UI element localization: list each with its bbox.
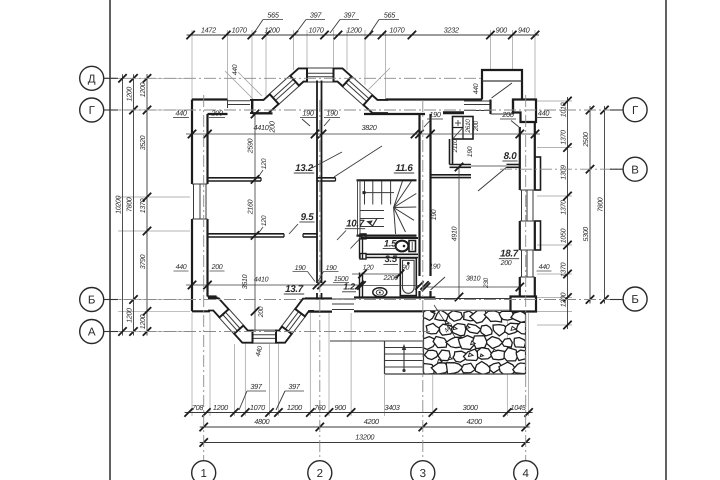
svg-text:120: 120 [363,265,374,272]
svg-text:4910: 4910 [452,226,459,241]
svg-text:А: А [88,327,96,339]
svg-text:10.7: 10.7 [346,219,365,230]
partition P6 stub right of stairs [431,174,472,176]
stair lower flight treads [360,210,384,212]
svg-text:1370: 1370 [560,200,567,215]
svg-text:440: 440 [473,83,480,94]
svg-text:440: 440 [232,64,239,75]
svg-text:397: 397 [288,382,301,391]
svg-text:1472: 1472 [201,26,216,35]
partition P1 between rooms 13.2 and 9.5 [208,177,262,179]
svg-text:230: 230 [483,277,490,289]
svg-text:3403: 3403 [384,403,399,412]
exterior top wall outer face left segment [192,98,228,100]
exterior bottom wall left corner outer [192,310,210,312]
partition P2 between rooms 9.5 and 13.7 [208,233,285,235]
interior vertical dimension line x=255 [254,114,256,330]
right dimension column outer 7800 [604,106,606,304]
svg-text:3232: 3232 [444,26,459,35]
left dimension column inner [146,74,148,336]
svg-text:4800: 4800 [254,417,269,426]
window W4 in right wall [521,190,523,221]
svg-text:3790: 3790 [140,254,147,269]
sheet frame left border [109,0,111,480]
partition V4 of room 8.0 [449,139,451,165]
svg-text:2500: 2500 [583,132,590,148]
axis circle A left [104,331,118,333]
svg-text:1200: 1200 [213,403,228,412]
duct shaft cross mark [455,122,461,124]
bearing wall V2 on axis 3 lower part [418,291,420,298]
svg-text:4410: 4410 [254,277,269,284]
svg-text:190: 190 [431,209,438,220]
axis circle G left [104,109,118,111]
svg-text:1200: 1200 [264,26,279,35]
exterior right wall inner face [519,127,521,190]
svg-text:1: 1 [200,468,206,480]
svg-text:200: 200 [258,306,265,318]
svg-text:200: 200 [501,110,514,119]
diagonal leader into stones [434,305,455,337]
interior vertical dim 4910 in room 18.7 [458,167,460,297]
interior dimension line 120 90 in bathroom [352,273,400,275]
partition P3 between WC and bathroom [366,253,418,255]
svg-text:В: В [631,164,639,176]
door post square at P3 junction [360,254,366,260]
svg-text:13.7: 13.7 [285,284,304,295]
svg-text:565: 565 [384,11,397,20]
svg-text:190: 190 [429,110,441,119]
svg-text:1200: 1200 [126,87,133,102]
svg-text:3610: 3610 [242,274,249,289]
partition P4 top wall of WC room [361,237,418,239]
interior dimension row A y=134 [186,133,540,135]
axis circle 3 bottom [411,461,435,480]
svg-text:120: 120 [261,158,268,169]
right dimension column middle 2500 5300 [589,106,591,304]
svg-text:5300: 5300 [583,227,590,242]
svg-text:4200: 4200 [467,417,482,426]
right dimension column inner [567,97,569,329]
partition V3 left of WC and bathroom upper [359,238,361,259]
svg-text:Г: Г [632,105,639,117]
bottom extension lines [191,313,193,416]
svg-text:4200: 4200 [364,417,379,426]
partition V3 lower [359,273,361,298]
partition P1 stub right of axis 2 [317,177,336,179]
svg-text:2590: 2590 [248,138,255,154]
top bay diagonal extension lines [225,71,253,99]
svg-text:1370: 1370 [560,262,567,277]
svg-text:1200: 1200 [126,308,133,323]
svg-text:Г: Г [89,105,96,117]
svg-text:2610: 2610 [465,119,472,134]
exterior top wall inner face left segment [208,113,228,115]
svg-text:3520: 3520 [140,135,147,150]
svg-text:2: 2 [317,468,323,480]
window W2 in top wall [228,100,253,102]
axis line 1 (vertical x=203) [203,95,205,460]
stair left boundary double line [357,180,359,235]
svg-text:10200: 10200 [115,196,122,214]
svg-text:4: 4 [522,468,529,480]
axis circle V right [610,168,623,170]
bottom bay window band with elbows [208,304,314,336]
axis line B (horizontal y=299) [104,299,622,301]
stair upper flight treads [364,181,366,205]
svg-text:200: 200 [473,120,480,132]
stair flight middle line [365,192,395,194]
svg-text:190: 190 [326,265,337,272]
axis circle G right [610,109,623,111]
svg-text:Б: Б [88,295,96,307]
top extension lines [191,30,193,99]
svg-text:1050: 1050 [560,228,567,243]
exterior right wall outer face [534,122,536,190]
door leaf of room 8.0 [478,167,507,191]
svg-text:1200: 1200 [140,82,147,97]
svg-text:9.5: 9.5 [301,212,315,223]
bottom-right corner block [511,297,537,312]
porch doorway thin lines [435,298,510,300]
duct shaft block near axis 3 [453,117,474,140]
svg-text:3820: 3820 [361,123,376,132]
svg-text:900: 900 [496,26,508,35]
exterior top wall inner face right of bay [364,113,425,115]
svg-text:2110: 2110 [452,139,459,153]
svg-text:200: 200 [268,121,277,134]
svg-text:3.5: 3.5 [385,253,398,264]
left extension lines [118,77,190,79]
stair direction arrow [369,218,378,226]
svg-text:1070: 1070 [389,26,404,35]
stair top edge beam [357,179,417,181]
door post square at P4 junction [360,234,366,239]
top-right corner block [513,100,536,123]
porch platform edge line [330,340,385,342]
svg-text:1200: 1200 [140,314,147,329]
wash basin in room 1.2 [373,288,387,297]
left dimension column outer 10200 [122,74,124,335]
right wall pilaster upper [535,157,541,190]
svg-text:1070: 1070 [308,26,323,35]
svg-text:120: 120 [261,215,268,226]
axis line A (horizontal y=331) [104,331,430,333]
door leaf from stairs to room 18.7 [431,277,446,290]
svg-text:3: 3 [420,468,426,480]
exterior top wall outer face right of bay [386,98,482,100]
bearing wall V2 on axis 3 upper part [418,114,420,276]
chimney block at top [482,70,522,100]
right wall pilaster lower [535,221,541,250]
svg-text:1370: 1370 [140,198,147,213]
svg-text:7800: 7800 [597,197,604,212]
bathtub in bathroom 3.5 [400,258,416,296]
svg-text:8.0: 8.0 [504,151,518,162]
duct shaft diagonal [454,129,463,139]
svg-text:1309: 1309 [560,165,567,180]
svg-text:397: 397 [250,382,263,391]
top bay left elbow edge cap [251,100,253,113]
svg-text:440: 440 [539,264,550,271]
axis circle B right [610,299,623,301]
svg-text:440: 440 [176,264,187,271]
door leaf into room 1.2 [351,239,361,249]
toilet in WC 1.5 [409,241,416,252]
svg-text:1200: 1200 [287,403,302,412]
svg-text:708: 708 [192,403,205,412]
sheet frame right border [665,0,667,480]
axis line D (horizontal y=78) [104,77,482,79]
svg-text:565: 565 [267,11,280,20]
axis circle 1 bottom [192,461,216,480]
left dimension column middle 1200 7800 1200 [133,74,135,335]
porch steps arrow [402,369,405,372]
exterior bottom wall left corner inner [208,295,217,297]
partition P2 second segment [303,233,317,235]
partition V1 on axis 2 [316,81,318,284]
exterior wall left inner face [206,114,208,184]
svg-text:Д: Д [88,74,96,86]
axis line 3 (vertical x=423) [422,100,424,460]
axis circle 2 bottom [308,461,332,480]
chimney flue diagonal [492,83,513,98]
interior dimension row B1 y=285 [186,284,362,286]
flue gap walls [489,100,491,115]
axis circle 4 bottom [514,461,538,480]
svg-text:940: 940 [518,26,530,35]
svg-text:7800: 7800 [126,197,133,212]
top wall solid pier under chimney [443,111,464,114]
bottom dimension row 1 [185,412,533,414]
window W3 in top wall right [464,100,491,102]
svg-text:3810: 3810 [466,276,481,283]
axis line V (horizontal y=169) [500,168,622,170]
interior dimension row 2200 [361,285,420,287]
svg-text:397: 397 [310,11,323,20]
svg-text:200: 200 [500,260,512,267]
exterior wall left outer face [191,100,193,185]
bottom dimension row 3 [200,442,530,444]
exterior bottom wall outer face right part [305,311,332,313]
bottom bay diagonal extension lines [228,325,246,343]
svg-text:18.7: 18.7 [500,249,519,260]
porch steps [384,341,386,374]
svg-text:190: 190 [429,263,440,270]
svg-text:200: 200 [211,264,223,271]
bottom dimension row 2 [200,426,530,428]
stair bottom edge beam [357,235,417,237]
top bay window band with elbows [250,75,388,107]
stair winder fan [394,181,403,208]
partition P5 under room 8.0 [450,164,472,166]
axis line 2 (vertical x=320) [319,100,321,460]
svg-text:190: 190 [295,265,306,272]
svg-text:4410: 4410 [253,123,268,132]
svg-text:900: 900 [334,403,346,412]
svg-text:3000: 3000 [463,403,478,412]
top main dimension row [187,34,539,36]
svg-text:Б: Б [631,294,639,306]
svg-text:1200: 1200 [346,26,361,35]
svg-text:2200: 2200 [383,275,399,282]
svg-text:1.2: 1.2 [343,282,355,292]
svg-text:1.5: 1.5 [384,237,397,248]
porch stone area boundary [423,311,425,375]
window W6 in bottom wall [332,298,354,300]
axis line G (horizontal y=110) [104,109,622,111]
leader diagonal in room 11.6 [334,146,382,177]
svg-text:190: 190 [467,146,474,157]
svg-text:397: 397 [344,11,357,20]
svg-text:1070: 1070 [250,403,265,412]
axis line 4 (vertical x=526) [525,95,527,460]
window W5 in right wall [521,250,523,277]
svg-text:1370: 1370 [560,130,567,145]
svg-text:1070: 1070 [232,26,247,35]
partition V1 foot [316,293,318,299]
exterior bottom wall inner face right part [305,297,332,299]
svg-text:13.2: 13.2 [295,163,314,174]
right extension lines [537,100,572,102]
svg-text:2160: 2160 [248,199,255,215]
axis circle B left [104,299,118,301]
axis circle D left [104,77,118,79]
svg-text:90: 90 [402,265,410,272]
interior dimension row 3810 [426,286,521,288]
svg-text:13200: 13200 [355,432,374,441]
svg-text:1045: 1045 [510,403,526,412]
svg-text:11.6: 11.6 [395,163,413,174]
window W1 in left wall [193,184,195,219]
